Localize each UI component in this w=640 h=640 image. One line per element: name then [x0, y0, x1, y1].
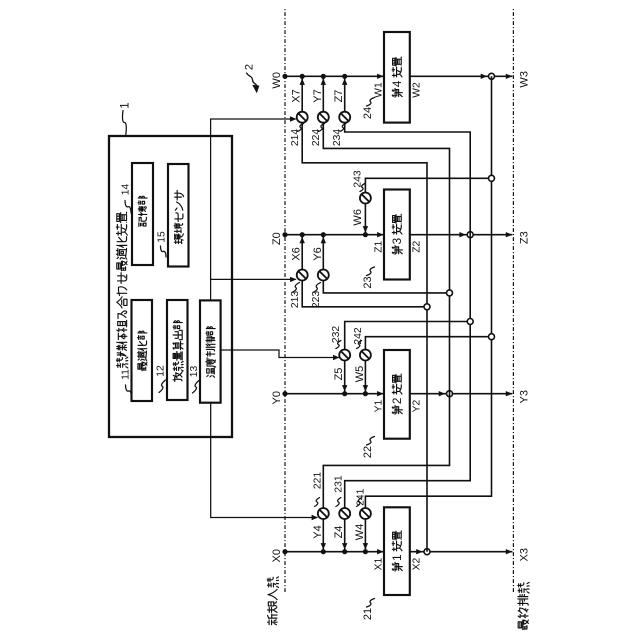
wire: W5 into feed Y1	[364, 361, 366, 392]
node: output tap circle Y2	[447, 391, 453, 397]
block 12 放熱量算出部	[167, 300, 188, 400]
wire: feed line Y1 from bus into device	[285, 393, 383, 395]
wire: output line Z2 from device to bus	[410, 234, 513, 236]
svg-text:223: 223	[311, 291, 322, 308]
wire: control to valve Z5	[221, 350, 339, 358]
node: W branch circle for W5	[489, 334, 495, 340]
label 21	[367, 599, 375, 608]
svg-text:231: 231	[334, 475, 345, 492]
wire: feed line W1 from bus into device	[285, 75, 383, 77]
svg-text:Y7: Y7	[312, 89, 324, 102]
wire: Y6 into feed Z1	[322, 237, 324, 270]
wire: output line Y2 from device to bus	[410, 393, 513, 395]
svg-text:14: 14	[121, 184, 132, 196]
svg-text:24: 24	[362, 107, 374, 119]
label 23	[367, 267, 375, 276]
device box 23 第3装置	[384, 190, 410, 280]
label 最終排熱	[518, 582, 529, 629]
node: bus tap W0	[282, 74, 287, 79]
svg-text:1: 1	[391, 554, 404, 561]
node: bus tap X0	[282, 549, 287, 554]
valve 243 W6	[360, 193, 371, 204]
valve 213 X6	[297, 270, 308, 281]
valve 221 Y4	[318, 508, 329, 519]
svg-text:21: 21	[362, 608, 374, 620]
wire: X7 into feed W1	[301, 78, 303, 111]
device box 24 第4装置	[384, 32, 410, 123]
wire: W2 return line	[365, 76, 491, 508]
wire: feed line Z1 from bus into device	[285, 234, 383, 236]
svg-text:23: 23	[362, 276, 374, 288]
wire: branch to W5	[365, 337, 488, 350]
node: X branch circle	[424, 304, 430, 310]
label 22	[367, 437, 375, 446]
svg-text:11: 11	[121, 369, 132, 380]
svg-text:Y3: Y3	[519, 390, 531, 403]
svg-text:Z7: Z7	[333, 90, 345, 103]
svg-text:22: 22	[362, 446, 374, 458]
block 11 最適化部	[132, 300, 153, 401]
label 2 with leader arrow	[247, 73, 258, 88]
svg-text:2: 2	[391, 398, 404, 405]
svg-text:X7: X7	[291, 89, 303, 102]
wire: branch to Z5	[345, 322, 467, 350]
svg-text:15: 15	[157, 231, 168, 243]
wire: branch to X6	[302, 281, 424, 307]
svg-text:X6: X6	[291, 247, 303, 260]
svg-text:W5: W5	[354, 366, 366, 383]
svg-text:Z1: Z1	[374, 240, 385, 252]
valve 241 W4	[360, 508, 371, 519]
svg-text:W1: W1	[374, 82, 385, 98]
svg-text:Y6: Y6	[312, 247, 324, 260]
svg-text:Y0: Y0	[271, 391, 283, 404]
valve 234 Z7	[339, 112, 350, 123]
block 13 温度制御部	[200, 300, 221, 402]
svg-text:1: 1	[120, 102, 132, 108]
svg-text:242: 242	[353, 327, 364, 344]
device box 21 第1装置	[384, 507, 410, 595]
node: output tap circle X2	[424, 549, 430, 555]
wire: Z7 into feed W1	[344, 78, 346, 111]
wire: control branch to X6	[211, 278, 296, 280]
svg-text:W6: W6	[352, 209, 364, 226]
wire: X2 return line	[302, 123, 427, 552]
valve 232 Z5	[339, 350, 350, 361]
valve 231 Z4	[339, 508, 350, 519]
node: bus tap Z0	[282, 232, 287, 237]
svg-text:Z4: Z4	[333, 526, 345, 539]
optimizer unit box U1 熱媒体組み合わせ最適化装置	[109, 136, 232, 437]
node: new-heat-input bus (dash-dot)	[284, 9, 286, 592]
wire: feed line X1 from bus into device	[285, 551, 383, 553]
svg-text:221: 221	[312, 472, 323, 489]
device box 22 第2装置	[384, 350, 410, 439]
label 新規入熱	[267, 577, 278, 625]
svg-text:W0: W0	[271, 72, 283, 89]
wire: W4 into feed X1	[364, 519, 366, 550]
valve 224 Y7	[318, 112, 329, 123]
node: Y branch circle	[447, 290, 453, 296]
wire: Y4 into feed X1	[322, 519, 324, 550]
wire: branch to Y6	[323, 281, 446, 293]
wire: Y2 return line	[323, 123, 449, 508]
block 15 環境センサ	[168, 164, 189, 267]
label 1	[122, 111, 126, 135]
valve 242 W5	[360, 350, 371, 361]
wire: Z5 into feed Y1	[344, 361, 346, 392]
svg-text:X3: X3	[519, 548, 531, 561]
valve 223 Y6	[318, 270, 329, 281]
svg-text:4: 4	[391, 80, 404, 87]
svg-text:X2: X2	[412, 557, 423, 570]
svg-text:Z2: Z2	[412, 240, 423, 252]
svg-text:X1: X1	[374, 557, 385, 570]
node: bus tap Y0	[282, 391, 287, 396]
svg-text:3: 3	[391, 238, 404, 245]
svg-text:243: 243	[352, 170, 363, 187]
svg-text:Y2: Y2	[412, 399, 423, 412]
svg-text:214: 214	[290, 129, 301, 146]
node: Z branch circle	[467, 319, 473, 325]
svg-text:W3: W3	[519, 71, 531, 88]
svg-text:Y1: Y1	[374, 399, 385, 412]
svg-text:Z3: Z3	[519, 231, 531, 244]
wire: output line W2 from device to bus	[410, 75, 513, 77]
svg-text:2: 2	[244, 64, 256, 70]
svg-text:W4: W4	[354, 524, 366, 541]
node: final-heat-discharge bus (dash-dot)	[512, 9, 514, 592]
label 24	[367, 98, 375, 107]
wire: branch to W6	[365, 178, 488, 192]
svg-text:X0: X0	[271, 549, 283, 562]
svg-text:12: 12	[156, 365, 167, 377]
svg-text:241: 241	[356, 488, 367, 505]
svg-text:224: 224	[311, 129, 322, 146]
node: output tap circle Z2	[467, 232, 473, 238]
block 14 記憶部	[132, 163, 153, 265]
wire: Y7 into feed W1	[322, 78, 324, 111]
wire: X6 into feed Z1	[301, 237, 303, 270]
svg-text:Z0: Z0	[271, 232, 283, 245]
svg-text:232: 232	[331, 326, 342, 343]
wire: W6 into feed Z1	[364, 204, 366, 233]
valve 214 X7	[297, 112, 308, 123]
svg-text:13: 13	[189, 366, 200, 378]
wire: output line X2 from device to bus	[410, 551, 513, 553]
wire: control from 温度制御部 to valves X7/X6	[211, 119, 296, 300]
svg-text:213: 213	[290, 291, 301, 308]
svg-text:Z5: Z5	[333, 368, 345, 381]
node: output tap circle W2	[489, 73, 495, 79]
wire: Z4 into feed X1	[344, 519, 346, 550]
svg-text:Y4: Y4	[312, 525, 324, 538]
svg-text:234: 234	[332, 129, 343, 146]
node: W branch circle for W6	[489, 175, 495, 181]
wire: Z2 return line	[345, 123, 471, 508]
wire: control to valve Y4	[211, 403, 317, 518]
svg-text:W2: W2	[412, 82, 423, 98]
